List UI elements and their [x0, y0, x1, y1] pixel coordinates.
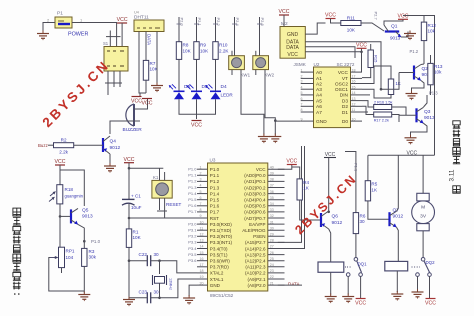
push button KW1 [229, 56, 251, 78]
wire C1 to RST node [128, 204, 130, 229]
svg-text:VCC: VCC [142, 101, 153, 107]
net label P1.3 [429, 91, 438, 96]
relay JDQ2 [385, 261, 408, 271]
svg-text:(AD4)P0.4: (AD4)P0.4 [244, 198, 266, 203]
svg-text:7: 7 [200, 202, 202, 206]
svg-text:R17 2.2k: R17 2.2k [374, 119, 389, 123]
U2 right pin stubs [351, 68, 363, 121]
wire D1 to R17 [362, 106, 374, 114]
U3 left pin stubs [197, 165, 208, 285]
svg-text:A0: A0 [316, 70, 322, 76]
svg-text:K1: K1 [153, 175, 159, 180]
label POWER [68, 32, 88, 38]
wire R1 bottom to C22 bus [128, 247, 130, 297]
buzzer speaker symbol [123, 104, 143, 133]
wire U2 GND to ground [275, 120, 300, 122]
wire RST to MCU [129, 217, 197, 219]
svg-text:15: 15 [352, 85, 356, 89]
wire Q3 base [399, 114, 417, 116]
svg-text:P1.6: P1.6 [210, 204, 220, 209]
wire base to Q5 [60, 215, 71, 217]
svg-text:VCC: VCC [191, 123, 202, 129]
wire MCU GND to ground [189, 285, 197, 296]
svg-text:P1.1: P1.1 [354, 163, 359, 172]
wire column P2.1 [196, 17, 198, 42]
svg-text:VCC: VCC [425, 301, 436, 307]
photoresistor R18 [49, 185, 84, 204]
svg-text:DATA: DATA [288, 282, 301, 287]
svg-text:DIN: DIN [340, 93, 349, 99]
wire Q7 emitter to relay2 [397, 227, 399, 261]
svg-text:A2: A2 [316, 81, 322, 87]
wire branch to Q5 collector [60, 170, 84, 206]
svg-text:A5: A5 [316, 98, 322, 104]
svg-text:RST: RST [210, 216, 219, 221]
svg-text:P1.7: P1.7 [210, 210, 220, 215]
svg-text:P2.2: P2.2 [216, 18, 221, 27]
wire S1 bottom pin a [107, 71, 109, 95]
svg-text:D0: D0 [342, 119, 348, 125]
wire KW2 pin stub bl [255, 70, 257, 75]
svg-text:P3.5(T1): P3.5(T1) [210, 252, 228, 257]
svg-text:21: 21 [270, 281, 274, 285]
svg-text:XTAL2: XTAL2 [210, 271, 224, 276]
label R17 2.2k [374, 119, 389, 123]
switch DQ1 [345, 258, 367, 277]
svg-text:JSMK: JSMK [294, 62, 307, 67]
wire node to VCC bar [139, 93, 141, 97]
svg-text:ALE/PROG: ALE/PROG [242, 228, 266, 233]
svg-text:(AD3)P0.3: (AD3)P0.3 [244, 191, 266, 196]
wire pin40 to VCC [278, 165, 292, 170]
svg-text:R9: R9 [200, 43, 206, 48]
power VCC dark at motor rail [407, 150, 418, 156]
wire RP1 wiper loop [49, 258, 85, 292]
svg-text:18: 18 [352, 68, 356, 72]
svg-text:2: 2 [200, 172, 202, 176]
svg-text:D3: D3 [342, 98, 348, 104]
wire VT to R15 [362, 68, 371, 78]
push button KW2 [253, 56, 275, 78]
wire Q1 emitter to ground [401, 32, 408, 38]
svg-text:3: 3 [200, 178, 202, 182]
resistor R7 [143, 60, 158, 80]
wire R12 bottom to Q2 collector [423, 41, 425, 64]
push button K1 RESET [152, 175, 172, 198]
wire crystal top [159, 261, 161, 274]
ground DQ1 [342, 294, 354, 304]
ground DHT11 [151, 83, 163, 93]
wire P2.6 up [278, 146, 305, 249]
ground relay2 [391, 291, 403, 301]
svg-text:(A13)P2.5: (A13)P2.5 [245, 252, 266, 257]
wire RP1 bottom [61, 268, 63, 273]
wire DIN right [381, 73, 399, 90]
resistor R17 [374, 112, 392, 117]
header M2 [280, 21, 305, 58]
svg-text:P1.5: P1.5 [210, 198, 220, 203]
resistor R15 [368, 50, 373, 68]
svg-text:U4: U4 [134, 11, 139, 15]
wire DQ1 left contact to ground [347, 276, 349, 294]
svg-text:P1.4: P1.4 [210, 191, 220, 196]
svg-text:Q4: Q4 [110, 139, 117, 145]
resistor R8 [176, 42, 191, 60]
wire top right rail [403, 16, 435, 156]
wire OSC2 [362, 66, 391, 84]
wire R8 to D6 [178, 59, 180, 91]
svg-text:M: M [421, 205, 425, 211]
svg-text:DQ2: DQ2 [426, 260, 436, 265]
wire R4 top to VCC [292, 167, 300, 179]
ground MCU [183, 295, 195, 305]
svg-text:40: 40 [270, 165, 274, 169]
svg-text:28: 28 [270, 239, 274, 243]
svg-text:D4: D4 [221, 84, 227, 90]
resistor R14 [388, 79, 393, 95]
svg-text:8: 8 [301, 108, 303, 112]
wire buzzer top to VCC [140, 99, 148, 109]
svg-text:R15: R15 [374, 55, 379, 63]
wire crystal bottom [159, 283, 161, 298]
svg-text:1K: 1K [396, 81, 401, 86]
wire D2 to R16 [362, 101, 374, 107]
svg-text:KW2: KW2 [265, 73, 275, 78]
resistor R11 [341, 16, 361, 33]
svg-text:10k: 10k [434, 70, 442, 75]
wire motor VCC rail [368, 154, 435, 156]
svg-text:P2.1: P2.1 [197, 18, 202, 27]
svg-text:OSC2: OSC2 [335, 81, 348, 87]
tick under S1 [105, 82, 122, 84]
svg-text:1K: 1K [303, 186, 310, 191]
ground Q2 [406, 91, 418, 101]
wire C22 left [129, 260, 147, 262]
wire DQ1 right contact to VCC [360, 276, 362, 298]
svg-text:(AD0)P0.0: (AD0)P0.0 [244, 173, 266, 178]
svg-text:5: 5 [200, 190, 202, 194]
svg-text:(AD1)P0.1: (AD1)P0.1 [244, 179, 266, 184]
caption right figure number [449, 169, 456, 181]
svg-text:P1.1: P1.1 [188, 173, 197, 178]
wire Q3 emitter to ground [411, 123, 428, 135]
svg-text:22: 22 [270, 275, 274, 279]
svg-text:P2.7: P2.7 [374, 12, 379, 21]
svg-text:R7: R7 [150, 61, 156, 66]
wire Q6 collector to VCC [328, 158, 330, 212]
svg-text:10K: 10K [347, 28, 356, 33]
transistor Q1 [384, 24, 401, 41]
svg-text:VCC: VCC [286, 159, 297, 165]
wire R5 bottom to Q7 base [368, 201, 390, 219]
junction xtal top [128, 259, 131, 262]
net label P2.0 [177, 18, 185, 27]
svg-text:C23: C23 [139, 289, 148, 294]
svg-text:P3.4(T0): P3.4(T0) [210, 246, 228, 251]
svg-text:VCC: VCC [356, 43, 367, 49]
svg-text:VCC: VCC [325, 13, 336, 19]
junction M2 VCC [360, 51, 363, 54]
svg-text:10k: 10k [428, 29, 436, 34]
wire KW2 pin stub tl [255, 51, 257, 56]
svg-text:(AD2)P0.2: (AD2)P0.2 [244, 185, 266, 190]
svg-text:9012: 9012 [332, 220, 343, 226]
svg-text:1: 1 [301, 68, 303, 72]
label RESET [166, 202, 182, 207]
net label P1.0 left [91, 239, 101, 244]
wire P1 pin2 to ground [43, 23, 55, 32]
svg-text:2: 2 [47, 18, 50, 23]
svg-text:2: 2 [301, 75, 303, 79]
junction U2 gnd [274, 119, 277, 122]
svg-text:16: 16 [200, 257, 204, 261]
svg-text:P1.2: P1.2 [188, 179, 197, 184]
wire R7 bottom to VCC node [145, 80, 147, 93]
junction reset branch [128, 167, 131, 170]
svg-text:Q6: Q6 [332, 214, 339, 220]
svg-text:6: 6 [200, 196, 202, 200]
transistor Q6 PNP [321, 211, 343, 229]
wire KW1 pin stub bl [231, 70, 233, 75]
svg-text:P3.7(RD): P3.7(RD) [210, 265, 229, 270]
svg-text:(A9)P2.1: (A9)P2.1 [248, 277, 266, 282]
net label DATA at P2.0 [288, 282, 301, 287]
svg-text:U3: U3 [210, 158, 216, 163]
wire R13 bottom [430, 85, 432, 95]
svg-text:11: 11 [352, 108, 356, 112]
wire DQ2 right contact to VCC [429, 276, 431, 298]
wire K1 top leg a [159, 168, 161, 180]
net label P2.2 [213, 18, 221, 27]
wire M2 VCC pin [305, 48, 361, 52]
wire VCC to R11 [331, 19, 341, 24]
svg-text:C22: C22 [139, 252, 148, 257]
svg-text:P3.3: P3.3 [188, 240, 197, 245]
svg-text:89C51/C52: 89C51/C52 [210, 293, 234, 298]
wire R15 top [370, 44, 372, 50]
svg-text:R13: R13 [434, 64, 443, 69]
tick crossing S1 columns [106, 36, 121, 38]
svg-text:12: 12 [200, 233, 204, 237]
ground Q3 [405, 135, 417, 145]
svg-text:P1.0: P1.0 [91, 239, 101, 244]
wire Q6 emitter to relay [329, 229, 331, 262]
capacitor C22 [139, 252, 160, 266]
wire buzzer bottom to Q4 [110, 121, 140, 134]
svg-text:P1.3: P1.3 [188, 185, 197, 190]
svg-text:P1.7: P1.7 [188, 209, 197, 214]
wire DHT11 pin2 DATA [145, 32, 147, 61]
wire Q5 emitter down [78, 224, 84, 266]
svg-text:VCC: VCC [287, 52, 298, 58]
svg-text:9: 9 [301, 117, 303, 121]
resistor R9 [194, 42, 209, 60]
ground relay1 [325, 294, 337, 304]
svg-text:30: 30 [360, 219, 366, 224]
svg-text:Q2: Q2 [422, 66, 429, 72]
wire motor bottom to DQ2 [422, 231, 424, 258]
ground Q1 [404, 31, 416, 41]
svg-text:33: 33 [270, 208, 274, 212]
wire C23 left [129, 297, 147, 299]
svg-text:9013: 9013 [390, 36, 401, 41]
caption right chinese part [453, 121, 460, 164]
watermark 2BYSJ.CN top-left [40, 57, 113, 130]
wire Q2 base from U2 [399, 72, 414, 74]
svg-text:2.2k: 2.2k [59, 150, 68, 155]
ground R3 [78, 292, 90, 302]
transistor Q3 [417, 107, 436, 123]
svg-text:R5: R5 [371, 182, 377, 187]
svg-text:7: 7 [301, 103, 303, 107]
wire relay1 to ground [330, 272, 332, 294]
wire LED bus to VCC [196, 99, 198, 119]
svg-text:23: 23 [270, 269, 274, 273]
svg-text:17: 17 [352, 75, 356, 79]
resistor R10 [213, 42, 230, 60]
resistor R16 [374, 105, 392, 110]
potentiometer RP1 [50, 247, 75, 267]
svg-text:Q5: Q5 [82, 208, 89, 214]
wire KW1 pin stub tl [231, 51, 233, 56]
relay JDQ1 [318, 262, 344, 272]
svg-text:Q1: Q1 [391, 24, 398, 30]
svg-text:R12: R12 [428, 23, 437, 28]
caption right last glyph [453, 186, 460, 193]
svg-text:30: 30 [154, 289, 160, 294]
svg-text:9012: 9012 [110, 145, 121, 151]
svg-text:RP1: RP1 [66, 249, 75, 254]
svg-text:P1.2: P1.2 [410, 49, 419, 54]
svg-text:VT: VT [342, 76, 348, 82]
transistor Q4 PNP [103, 136, 121, 154]
svg-text:1K: 1K [371, 187, 378, 192]
wire VCC to C1 [128, 163, 130, 200]
power VCC under DQ2 [425, 299, 436, 307]
svg-text:P3.4: P3.4 [188, 246, 197, 251]
label R16 [374, 101, 392, 105]
svg-text:VCC: VCC [124, 157, 135, 163]
wire R18 bottom [59, 204, 61, 247]
junction RST [128, 217, 131, 220]
svg-text:XTAL1: XTAL1 [210, 277, 224, 282]
svg-text:25: 25 [270, 257, 274, 261]
svg-text:27: 27 [270, 245, 274, 249]
wire C22 right to XTAL2 [151, 261, 197, 273]
svg-text:31: 31 [270, 220, 274, 224]
svg-text:P1.2: P1.2 [210, 179, 220, 184]
svg-text:GND: GND [210, 283, 221, 288]
svg-text:P3.0(RXD): P3.0(RXD) [210, 222, 232, 227]
svg-text:VCC: VCC [256, 167, 266, 172]
svg-text:P3.1(TXD): P3.1(TXD) [210, 228, 232, 233]
power VCC at pin40 [286, 159, 297, 165]
svg-text:2.2K: 2.2K [219, 48, 229, 53]
svg-text:14: 14 [352, 91, 356, 95]
resistor R1 [126, 229, 141, 248]
svg-text:P3.6(WR): P3.6(WR) [210, 259, 230, 264]
svg-text:A4: A4 [316, 93, 322, 99]
wire D3 stub [362, 94, 370, 96]
svg-text:16: 16 [352, 80, 356, 84]
svg-text:P1.0: P1.0 [188, 167, 197, 172]
svg-text:10: 10 [352, 117, 356, 121]
svg-text:A3: A3 [316, 87, 322, 93]
svg-text:30: 30 [154, 252, 160, 257]
wire S1 bottom pin b [113, 71, 115, 87]
svg-text:VCC: VCC [117, 17, 128, 23]
ground DQ2 [412, 289, 424, 299]
svg-text:P1.1: P1.1 [210, 173, 220, 178]
label LEDR [221, 93, 234, 98]
svg-text:11: 11 [200, 226, 204, 230]
transistor Q2 [414, 65, 433, 81]
svg-text:R6: R6 [360, 214, 366, 219]
svg-text:P3.2: P3.2 [188, 234, 197, 239]
wire P2.7 up [278, 146, 302, 242]
wire relay2 to ground [396, 271, 398, 292]
svg-text:12: 12 [352, 103, 356, 107]
svg-text:POWER: POWER [68, 32, 88, 38]
svg-text:R1: R1 [133, 230, 139, 235]
wire Q1 collector [384, 19, 403, 25]
svg-text:2 R16 1.5k: 2 R16 1.5k [374, 101, 392, 105]
svg-text:26: 26 [270, 251, 274, 255]
net label P2.4 [232, 18, 240, 27]
wire M2 top to VCC [283, 15, 285, 27]
svg-text:EA/VPP: EA/VPP [249, 222, 265, 227]
power VCC at P1 rail [117, 17, 128, 23]
svg-text:(A12)P2.4: (A12)P2.4 [245, 259, 266, 264]
wire M2 GND pin [305, 23, 325, 34]
junction P1.0 node [83, 240, 86, 243]
U3 left net labels [188, 167, 197, 264]
svg-text:KW1: KW1 [241, 73, 251, 78]
resistor R6 [353, 213, 366, 234]
svg-text:32: 32 [270, 214, 274, 218]
wire KW2 to ground bus [265, 70, 275, 135]
wire Q2 collector up [421, 63, 424, 66]
resistor R5 [365, 181, 378, 201]
wire R10 to D4 [215, 59, 217, 91]
junction Q6 collector [327, 211, 330, 214]
switch DQ2 [412, 258, 436, 277]
svg-text:10K: 10K [183, 48, 192, 53]
svg-text:GND: GND [287, 32, 299, 38]
wire DQ2 left contact to ground [417, 276, 419, 290]
svg-text:10uF: 10uF [131, 205, 142, 210]
svg-text:6: 6 [301, 97, 303, 101]
wire VCC to R18 and Q5 collector [59, 165, 61, 185]
svg-text:(AD5)P0.5: (AD5)P0.5 [244, 204, 266, 209]
diode D6 LED [169, 84, 190, 100]
svg-text:P3.3(INT1): P3.3(INT1) [210, 240, 233, 245]
caption left chinese text [13, 208, 21, 295]
resistor R3 [82, 248, 97, 266]
svg-text:P1: P1 [57, 11, 63, 17]
diode D5 LED [187, 84, 208, 100]
svg-text:D1: D1 [342, 110, 348, 116]
junction DIN [380, 88, 383, 91]
U2 left pin stubs A0-A7 GND [301, 68, 314, 121]
svg-text:DATA: DATA [147, 34, 152, 45]
wire Q4 emitter down [109, 154, 111, 163]
svg-text:9: 9 [200, 214, 202, 218]
wire K1 top leg b [164, 172, 166, 180]
svg-text:4: 4 [301, 85, 303, 89]
svg-text:4: 4 [200, 184, 202, 188]
power VCC under DHT11 [131, 97, 142, 105]
